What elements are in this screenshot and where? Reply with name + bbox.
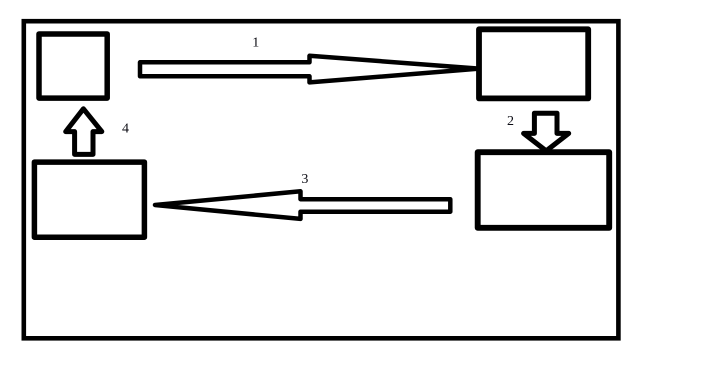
svg-text:2: 2	[507, 114, 514, 129]
arrow 4 (up, box D to box A)	[66, 109, 102, 155]
outer frame	[24, 21, 619, 338]
svg-text:3: 3	[301, 172, 308, 187]
svg-text:1: 1	[252, 36, 259, 51]
box D bottom-left	[34, 162, 144, 237]
box A top-left	[39, 34, 107, 98]
box B top-right	[479, 29, 588, 98]
arrow 2 (down, box B to box C)	[524, 113, 569, 151]
svg-text:4: 4	[122, 122, 129, 137]
box C bottom-right	[478, 152, 610, 228]
arrow 3 (left, box C to box D)	[155, 191, 450, 219]
arrow 1 (right, box A to box B)	[140, 56, 479, 83]
